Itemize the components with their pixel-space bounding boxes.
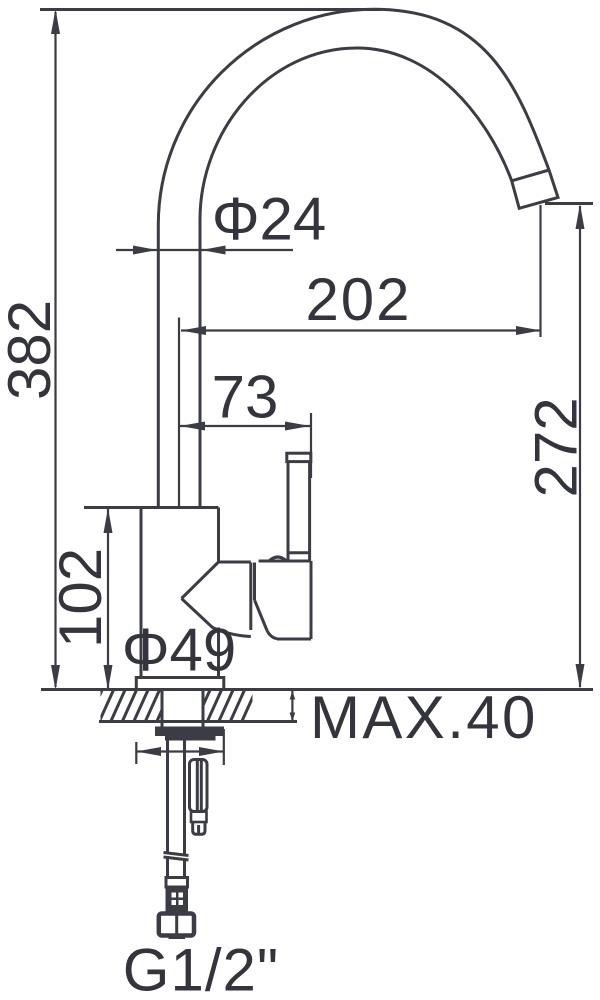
joint piece lower diagonal and curve [182, 599, 251, 637]
dimension D49 line [136, 750, 224, 752]
dimension D24 line [116, 249, 293, 251]
handle base bottom curve [267, 631, 277, 639]
svg-text:382: 382 [0, 300, 63, 400]
dimension D24 left arrow [133, 246, 157, 255]
dimension 73 left arrow [180, 422, 205, 431]
svg-text:272: 272 [523, 397, 590, 497]
dimension D24 right arrow [202, 246, 226, 255]
crimp collar dark block [166, 887, 189, 914]
handle base front diagonal [255, 600, 268, 631]
hose lower left edge [166, 856, 169, 877]
dimension 202 right arrow [516, 326, 541, 335]
second hose capsule [190, 760, 208, 812]
dimension MAX.40 top arrow [290, 691, 296, 700]
dimension D49 right extension [223, 729, 225, 765]
dimension 102 bottom arrow [104, 665, 113, 690]
counter top line [41, 688, 593, 691]
extension line handle top [310, 413, 312, 478]
body top line with extension [84, 506, 219, 509]
handle base bottom edge [277, 638, 311, 641]
supply hose left edge [166, 740, 169, 853]
dimension 382 line [54, 12, 56, 687]
hex nut divider [175, 915, 178, 934]
dimension 272 bottom arrow [576, 664, 585, 689]
svg-text:MAX.40: MAX.40 [310, 684, 538, 751]
second hose middle block [191, 812, 207, 823]
joint piece upper diagonal [182, 562, 219, 599]
handle base left edge outer [249, 563, 252, 631]
dimension 202 left arrow [181, 326, 206, 335]
dimension 73 line [180, 425, 310, 427]
dimension 382 top arrow [51, 9, 60, 34]
shank right edge [202, 690, 205, 728]
extension line from spout tip down [539, 205, 541, 337]
locknut lower bar [165, 736, 216, 741]
handle base top edge [259, 560, 311, 563]
locknut bar [155, 727, 224, 737]
dimension D49 right arrow [199, 747, 224, 756]
counter bottom line [99, 720, 297, 723]
second hose inner lines [197, 761, 201, 812]
dimension 102 line [107, 509, 109, 688]
shank left edge [161, 690, 164, 728]
svg-text:G1/2": G1/2" [123, 937, 279, 1000]
dimension 73 right arrow [285, 422, 310, 431]
supply hose right edge [183, 740, 186, 856]
lever left edge [287, 462, 290, 561]
svg-text:Φ49: Φ49 [122, 617, 237, 684]
dimension 102 top arrow [104, 508, 113, 533]
dimension D49 left extension [135, 742, 137, 764]
svg-text:Φ24: Φ24 [212, 186, 327, 253]
lever right edge [308, 462, 311, 561]
hex nut tip [169, 936, 186, 940]
second hose tip slot [197, 825, 200, 834]
body left edge [140, 508, 143, 678]
hose wrap band [164, 853, 189, 861]
spout tube outline [158, 9, 558, 508]
crimp collar holes [172, 893, 184, 906]
dimension MAX.40 bottom arrow [290, 713, 296, 722]
dimension D49 left arrow [136, 747, 161, 756]
body right edge upper [217, 508, 220, 563]
handle base right edge [310, 561, 313, 639]
lever bottom line [288, 551, 310, 554]
hex nut G1/2 [159, 914, 194, 936]
top extension line [40, 8, 381, 11]
dimension 272 line [579, 206, 581, 687]
dimension 382 bottom arrow [51, 665, 60, 690]
dimension MAX.40 line [291, 691, 293, 721]
dimension 202 line [181, 329, 541, 331]
joint piece top edge [219, 561, 251, 564]
dimension 272 top arrow [576, 204, 585, 229]
lever top cap [287, 453, 311, 461]
svg-text:202: 202 [305, 266, 411, 333]
svg-text:73: 73 [212, 364, 279, 431]
body right edge lower [217, 628, 220, 678]
crimp collar top band [166, 878, 188, 888]
second hose tip [193, 822, 205, 834]
extension line spout tip right [545, 202, 593, 205]
handle base top bump [269, 557, 287, 561]
svg-text:102: 102 [47, 548, 114, 648]
hose lower right edge [183, 860, 186, 877]
base flange [136, 678, 224, 689]
spout aerator cut line [512, 170, 549, 181]
pipe centre extension line [178, 318, 180, 507]
handle base left edge inner [253, 563, 256, 601]
